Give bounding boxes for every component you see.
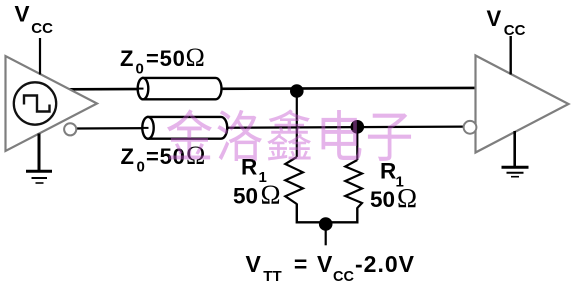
- resistor R1 right: [345, 160, 362, 208]
- svg-text:CC: CC: [31, 20, 53, 37]
- wire R1 left drop: [296, 91, 298, 157]
- receiver U2: [476, 56, 569, 153]
- svg-text:0: 0: [136, 61, 144, 78]
- svg-text:V: V: [246, 251, 262, 277]
- wire top differential trace: [68, 88, 475, 89]
- svg-text:Ω: Ω: [397, 183, 417, 213]
- svg-text:TT: TT: [263, 268, 281, 285]
- transmission line Z0 top (coax): [138, 78, 222, 99]
- svg-text:Ω: Ω: [186, 43, 205, 72]
- node junction bottom line: [351, 120, 365, 134]
- ground driver: [26, 170, 52, 173]
- wire bottom differential trace: [76, 127, 464, 129]
- watermark 金洛鑫电子: [167, 109, 411, 161]
- svg-text:-2.0V: -2.0V: [355, 251, 415, 277]
- VCC wire driver: [39, 38, 41, 75]
- ground receiver: [502, 166, 529, 169]
- ground wire receiver: [513, 131, 516, 166]
- inverting input bubble receiver: [464, 121, 477, 134]
- node VTT junction: [319, 217, 333, 231]
- wire VTT stub: [325, 229, 327, 245]
- svg-text:=: =: [294, 251, 307, 277]
- node junction top line: [290, 84, 304, 98]
- svg-text:CC: CC: [333, 269, 354, 285]
- svg-text:50: 50: [233, 184, 258, 209]
- svg-text:R: R: [380, 159, 396, 184]
- svg-text:=50: =50: [146, 46, 186, 71]
- svg-text:Ω: Ω: [261, 180, 281, 210]
- resistor R1 left: [285, 157, 303, 204]
- driver U1: [6, 56, 98, 151]
- oscillator symbol: [14, 82, 56, 124]
- svg-text:Z: Z: [120, 46, 133, 71]
- wire R1 right drop: [356, 127, 358, 160]
- svg-text:V: V: [487, 6, 502, 31]
- transmission line Z0 bottom (coax): [142, 117, 227, 139]
- inverting output bubble driver: [64, 123, 76, 135]
- VCC wire receiver: [510, 36, 512, 75]
- svg-text:50: 50: [370, 187, 395, 212]
- svg-text:Z: Z: [121, 144, 134, 169]
- svg-text:CC: CC: [504, 22, 526, 39]
- svg-text:0: 0: [137, 159, 145, 176]
- ground wire driver: [38, 134, 41, 171]
- svg-text:V: V: [15, 2, 30, 27]
- wire termination bottom U: [297, 204, 358, 223]
- svg-text:V: V: [317, 251, 333, 277]
